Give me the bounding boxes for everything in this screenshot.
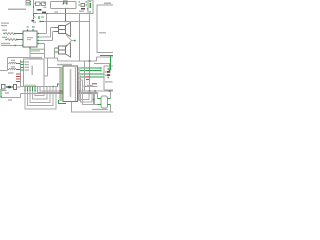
crystal label (92, 109, 108, 110)
L1 wires (8, 63, 10, 65)
wire vertical x79.5 (79, 14, 81, 62)
wire to amp pin3 (1, 45, 23, 47)
relay K1 box (35, 2, 41, 6)
display inner text (99, 32, 106, 34)
label (27, 26, 29, 27)
C2 green body (90, 3, 92, 8)
wire rail B (44, 21, 90, 23)
IC bottom wire to y112 (72, 102, 114, 113)
RTC red pins (105, 71, 106, 72)
label (33, 16, 36, 17)
red pins left (16, 74, 21, 82)
green vertical left edge (0, 89, 2, 98)
U1 right pins (78, 68, 81, 100)
wire y86.5 right (85, 86, 98, 88)
green speaker2 terminals (55, 48, 59, 52)
wire rail A (34, 13, 90, 15)
crystal left lower wire (94, 94, 98, 105)
wire y61 to display (97, 57, 114, 61)
label (38, 16, 39, 17)
wire R2 to amp (18, 39, 24, 41)
wire green vertical from U2 (65, 9, 67, 22)
U3 bottom pin dot (29, 47, 31, 48)
stub labels (25, 61, 30, 70)
label above (87, 85, 93, 86)
green speaker1 top (55, 27, 59, 29)
green dot (110, 69, 112, 70)
U3 inner label (27, 37, 33, 38)
R2 terminals (5, 39, 7, 40)
label near D2 (79, 11, 84, 12)
red net labels (86, 76, 89, 77)
inductor L2 (9, 69, 16, 70)
fuse dark (7, 86, 11, 89)
capacitor C5 dark (32, 20, 35, 22)
inductor L1 (9, 63, 16, 64)
RTC label (105, 81, 113, 82)
resistor R1 label (2, 30, 7, 31)
green dot (0, 96, 2, 97)
wire U3 to speaker1 bottom (39, 32, 55, 41)
green dot (93, 99, 95, 100)
U3 top pin dots (27, 29, 29, 30)
U1 label above (57, 64, 72, 66)
module green pins down (25, 87, 35, 92)
green wire IC bottom left (59, 100, 67, 104)
green stub below J1 (33, 14, 35, 20)
U1 left pin numbers (59, 67, 60, 100)
label L2 (11, 66, 15, 67)
wire y57.5 long (0, 54, 30, 71)
diode D2 cluster (78, 1, 88, 9)
R1 terminals (3, 33, 5, 34)
capacitor C1 dark (38, 9, 42, 11)
crystal right wires (110, 91, 112, 112)
pin bottom dots (24, 90, 35, 91)
rail A green segments (34, 13, 48, 15)
display label (104, 3, 111, 5)
wire y90.5 (1, 90, 7, 92)
L2 wires (8, 69, 10, 71)
label below L2 (8, 72, 14, 73)
battery box (2, 85, 6, 90)
RTC green dots (108, 68, 110, 69)
U3 right pin dots (38, 33, 40, 34)
U3 left pin dots (22, 33, 24, 34)
label 5V (55, 11, 59, 12)
U1 right pin numbers (75, 67, 76, 100)
relay K2 box (42, 2, 46, 6)
RTC inner component (107, 71, 110, 73)
junction dot (89, 60, 91, 62)
U3 green label below (30, 49, 44, 50)
junction dots y91 (89, 90, 91, 91)
wire R1 to amp (16, 33, 24, 35)
junction dot (109, 70, 111, 72)
pin labels row (25, 85, 37, 86)
connector bus vertical (20, 60, 22, 87)
wire vertical from J1 (33, 0, 35, 14)
U1 left pins (61, 68, 64, 100)
pin6 wire y92.5 (38, 87, 98, 93)
wire module bottom to IC (21, 86, 58, 88)
label L1 (11, 60, 15, 61)
wire speaker2 link (54, 48, 56, 58)
junction dot (52, 86, 54, 87)
RTC module box (104, 66, 114, 90)
C2 pin dots (89, 1, 90, 2)
junction dot green (74, 40, 76, 42)
green wire to U1 left pin y84 (58, 84, 61, 87)
component on top of U2 (63, 1, 68, 5)
wire x84.5 vertical (84, 61, 86, 91)
wire diagonal junction (66, 35, 76, 48)
C1 terminal (37, 9, 38, 10)
green stubs into module (21, 62, 24, 70)
label power connector (8, 9, 26, 11)
fuse terminals (6, 86, 7, 87)
capacitor C4 dark (42, 12, 46, 14)
regulator module U2 box (51, 2, 77, 9)
pin7 wire y91 (40, 87, 113, 92)
speaker LS2 (59, 43, 71, 57)
label ribbon (1, 43, 10, 44)
IC U1 box (63, 66, 78, 102)
wire y63.5 (94, 64, 110, 71)
U1 vertical text (70, 69, 72, 97)
junction dot (84, 86, 86, 87)
wire U3 bottom route (30, 44, 58, 62)
wire switch to bus (17, 86, 21, 88)
wire x97.5 to crystal (97, 93, 99, 99)
wire module right pin y76 (44, 58, 61, 76)
MP3 module box (24, 59, 45, 87)
wire y93.5 long (21, 93, 98, 95)
capacitor C2 tall box (88, 0, 93, 14)
label (5, 92, 9, 93)
wire U3 pin1 to rail A (39, 14, 47, 34)
resistor R1 (5, 33, 15, 35)
label interface two lines (1, 23, 9, 24)
switch box (14, 85, 17, 90)
wire y97.5 (1, 94, 21, 98)
resistor R2 label (2, 37, 7, 38)
display module box (97, 5, 114, 53)
green wires U1 right to module (80, 68, 104, 77)
wire U3 to speaker1 top (39, 28, 55, 38)
amplifier U3 box (23, 31, 37, 47)
connector J1 stack (26, 1, 30, 6)
wire y61 long (58, 60, 97, 62)
label under K2 (44, 7, 47, 8)
MP3 label above (29, 57, 42, 59)
pin dots J1 (30, 1, 32, 2)
right nest wires (78, 72, 95, 105)
green wire end dots (100, 67, 102, 69)
green vertical x110.5 (110, 56, 112, 71)
speaker LS1 (59, 23, 71, 37)
crystal pins green (98, 99, 111, 105)
green speaker1 bottom (55, 31, 59, 33)
MP3 vertical text (31, 66, 33, 76)
resistor R2 (7, 39, 17, 41)
wire green segment (33, 6, 35, 9)
red label y83 (92, 83, 97, 84)
wire vertical x89.5 (89, 14, 91, 94)
nest wires (25, 87, 56, 110)
junction dot green (15, 45, 17, 46)
junction dot (65, 21, 67, 23)
junction dot y93.5 (89, 93, 91, 94)
wire green y55 (100, 55, 113, 57)
label (8, 99, 12, 100)
crystal Y1 (101, 96, 108, 108)
wire U3 pin y43.5 (39, 43, 45, 45)
